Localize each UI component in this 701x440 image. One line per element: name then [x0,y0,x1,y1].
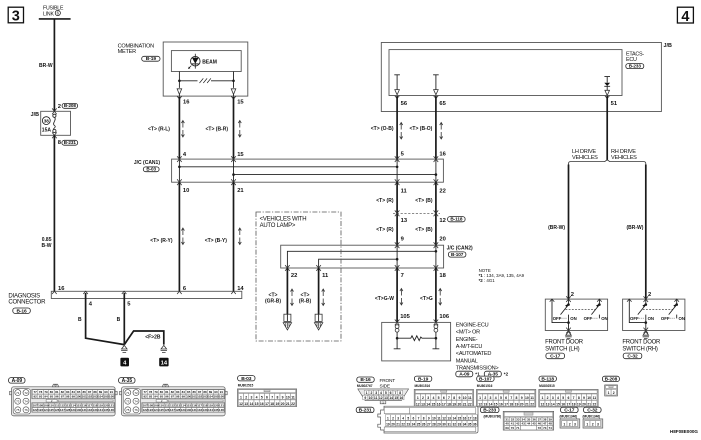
svg-text:96: 96 [165,395,169,399]
CAN1 bus line L [234,174,436,176]
svg-text:75: 75 [16,408,20,412]
svg-text:27: 27 [427,423,431,427]
svg-text:1: 1 [586,422,588,426]
svg-text:VEHICLES: VEHICLES [572,155,598,161]
svg-text:111: 111 [165,403,170,407]
svg-text:8: 8 [453,396,455,400]
svg-text:BEAM: BEAM [202,59,217,65]
ground (F 2B) [161,345,167,349]
svg-text:(R-B): (R-B) [299,299,312,305]
svg-text:15: 15 [556,402,560,406]
svg-text:22: 22 [291,273,297,279]
svg-text:110: 110 [49,403,54,407]
svg-text:FUSIBLE: FUSIBLE [43,5,64,11]
svg-text:12: 12 [239,402,243,406]
svg-text:18: 18 [439,273,446,279]
svg-text:7: 7 [418,416,420,420]
svg-text:ON: ON [601,316,607,321]
wire (R) CAN1 11 to CAN2 9 [396,182,398,245]
connector pinout B-19 [414,376,431,381]
svg-text:85: 85 [77,390,81,394]
junction block J/B (right) [381,43,661,112]
svg-text:ON: ON [679,316,685,321]
svg-text:7: 7 [394,391,396,395]
svg-text:16: 16 [400,396,404,400]
svg-text:117: 117 [87,403,92,407]
svg-text:FRONT DOOR: FRONT DOOR [545,340,584,346]
svg-text:43: 43 [522,422,526,426]
svg-text:6: 6 [567,396,569,400]
fuse symbol [53,114,56,117]
svg-text:88: 88 [93,390,97,394]
svg-text:9: 9 [521,396,523,400]
svg-text:5: 5 [500,396,502,400]
svg-text:C-32: C-32 [627,354,638,360]
CAN1 bus line H [179,166,397,168]
svg-text:AUTO LAMP>: AUTO LAMP> [260,223,296,229]
svg-text:13: 13 [447,416,451,420]
connector pinout A-35 [119,378,135,384]
svg-text:51: 51 [611,101,618,107]
svg-text:C-17: C-17 [564,408,575,414]
svg-text:72: 72 [24,391,28,395]
svg-text:B-118: B-118 [541,376,554,382]
svg-text:86: 86 [192,390,196,394]
svg-text:89: 89 [209,390,213,394]
svg-text:2: 2 [569,422,571,426]
svg-text:MU802515: MU802515 [238,384,254,388]
svg-text:(MU803786): (MU803786) [484,414,502,418]
connector pinout A-09 [9,378,25,384]
svg-text:99: 99 [72,395,76,399]
svg-text:97: 97 [171,395,175,399]
svg-text:11: 11 [468,396,472,400]
svg-text:1: 1 [608,391,610,395]
svg-text:ON: ON [648,316,654,321]
svg-text:16: 16 [439,152,446,158]
svg-text:10: 10 [286,396,290,400]
svg-text:116: 116 [82,403,87,407]
svg-text:35: 35 [468,423,472,427]
svg-text:20: 20 [458,402,462,406]
svg-text:20: 20 [439,237,445,243]
svg-text:115: 115 [76,403,81,407]
svg-text:76: 76 [24,408,28,412]
svg-text:MU802515: MU802515 [539,384,555,388]
svg-text:15: 15 [458,416,462,420]
svg-text:25: 25 [417,423,421,427]
svg-text:111: 111 [55,403,60,407]
svg-text:21: 21 [396,423,400,427]
svg-text:7: 7 [271,396,273,400]
svg-text:4: 4 [256,396,258,400]
svg-text:83: 83 [66,390,70,394]
svg-text:5: 5 [385,391,387,395]
svg-text:7: 7 [401,273,404,279]
svg-text:VEHICLES: VEHICLES [611,155,637,161]
svg-text:97: 97 [61,395,65,399]
svg-text:<T> (B-R): <T> (B-R) [206,127,229,133]
svg-text:12: 12 [541,402,545,406]
option box vehicles with auto lamp [256,212,341,341]
svg-text:71: 71 [126,391,130,395]
svg-text:<T> (R-L): <T> (R-L) [148,127,170,133]
svg-text:1: 1 [387,416,389,420]
svg-text:18: 18 [447,402,451,406]
svg-text:115: 115 [186,403,191,407]
svg-text:MU802767: MU802767 [357,384,373,388]
connector pinout B-118 [539,376,556,381]
svg-text:3: 3 [490,396,492,400]
svg-text:C-32: C-32 [587,408,598,414]
connector label B-233 [626,64,644,69]
svg-text:A-35: A-35 [122,378,133,384]
wire (R-L) meter 16 to J/C CAN1 pin 4 [178,97,180,160]
svg-text:(MU801346): (MU801346) [583,414,601,418]
svg-text:2: 2 [58,104,61,110]
connector label B-231 [62,140,78,145]
svg-text:12: 12 [478,402,482,406]
svg-text:LINK: LINK [43,12,54,18]
diode at pin 51 [604,77,610,83]
svg-text:<T> (B): <T> (B) [415,198,433,204]
connector label B-19 [142,56,160,61]
svg-text:18: 18 [572,402,576,406]
connector pinout B-233 [480,407,499,412]
svg-text:75: 75 [126,408,130,412]
svg-text:19: 19 [386,423,390,427]
svg-text:36: 36 [473,423,477,427]
fuse number 38 [42,117,50,125]
svg-text:B-19: B-19 [418,376,429,382]
svg-text:29: 29 [437,423,441,427]
svg-text:78: 78 [39,390,43,394]
svg-text:B-233: B-233 [629,64,642,69]
svg-text:96: 96 [55,395,59,399]
connector label C-17 [546,353,565,359]
svg-text:9: 9 [364,396,366,400]
svg-text:10: 10 [432,416,436,420]
svg-text:11: 11 [593,396,597,400]
svg-text:12: 12 [379,396,383,400]
svg-text:11: 11 [437,416,441,420]
svg-text:J/C (CAN1): J/C (CAN1) [134,160,160,166]
svg-text:MU801516: MU801516 [415,384,431,388]
svg-text:113: 113 [175,403,180,407]
svg-text:<AUTOMATED: <AUTOMATED [456,351,492,357]
svg-text:MANUAL: MANUAL [456,358,478,364]
svg-text:30: 30 [442,423,446,427]
svg-text:(BR-W): (BR-W) [626,225,643,231]
svg-text:13: 13 [483,402,487,406]
svg-text:85: 85 [187,390,191,394]
svg-text:*1: *1 [475,371,480,376]
svg-text:7: 7 [510,396,512,400]
svg-text:B-16: B-16 [16,308,27,314]
front door switch RH [623,299,685,330]
svg-text:21: 21 [525,402,529,406]
svg-text:23: 23 [407,423,411,427]
svg-text:22: 22 [401,423,405,427]
wire (B-Y) CAN1 21 to diagnosis pin 14 [233,182,235,291]
svg-text:76: 76 [134,408,138,412]
svg-text:<T> (R-Y): <T> (R-Y) [150,238,173,244]
svg-text:FRONT: FRONT [380,378,396,384]
svg-text:113: 113 [65,403,70,407]
svg-text:<T>G: <T>G [420,296,433,302]
svg-text:3: 3 [552,396,554,400]
svg-text:118: 118 [93,403,98,407]
svg-text:84: 84 [72,390,76,394]
svg-text:98: 98 [66,395,70,399]
svg-text:21: 21 [587,402,591,406]
svg-text:2: 2 [571,292,574,298]
svg-text:110: 110 [159,403,164,407]
svg-text:105: 105 [400,314,410,320]
svg-text:J/B: J/B [664,43,672,49]
svg-text:B-233: B-233 [483,408,496,414]
svg-text:J/C (CAN2): J/C (CAN2) [447,245,473,251]
svg-text:9: 9 [583,396,585,400]
wire (B) CAN1 22 to CAN2 20 [435,182,437,245]
svg-text:78: 78 [149,390,153,394]
svg-text:4: 4 [432,396,434,400]
svg-text:91: 91 [110,390,114,394]
svg-text:18: 18 [509,402,513,406]
engine ECU box [382,322,451,361]
svg-text:84: 84 [182,390,186,394]
svg-text:A-09: A-09 [459,372,470,378]
svg-text:<T> (R): <T> (R) [376,227,394,233]
wire (O-B) ETACS 56 to J/C CAN1 pin 5 [396,96,398,159]
svg-text:15: 15 [237,152,244,158]
svg-text:14: 14 [453,416,457,420]
svg-text:22: 22 [593,402,597,406]
ground (LH door switch) [566,332,572,336]
svg-text:8: 8 [276,396,278,400]
svg-text:<F>2B: <F>2B [145,334,161,340]
svg-text:2: 2 [592,422,594,426]
wire B diagnosis 5 to ground [123,293,125,345]
svg-text:ON: ON [570,316,576,321]
front door switch LH [545,299,607,330]
ground ref 14 [159,358,168,367]
connector pinout B-107 [477,376,494,381]
wire B diagnosis 4 to ground [86,293,125,345]
svg-text:ENGINE-ECU: ENGINE-ECU [456,322,489,328]
svg-text:56: 56 [401,101,408,107]
svg-text:13: 13 [546,402,550,406]
svg-text:10: 10 [183,188,189,194]
svg-text:15: 15 [432,402,436,406]
svg-text:65: 65 [439,101,446,107]
svg-text:B-231: B-231 [64,140,77,145]
svg-text:13: 13 [421,402,425,406]
connector pinout B-231 [356,407,374,412]
svg-text:19: 19 [452,402,456,406]
svg-text:ENGINE-: ENGINE- [456,337,478,343]
svg-text:90: 90 [214,390,218,394]
svg-text:A-M/T-ECU: A-M/T-ECU [456,344,483,350]
svg-text:10: 10 [525,396,529,400]
svg-text:B-W: B-W [42,243,52,249]
svg-text:B-208: B-208 [605,376,618,382]
svg-text:80: 80 [160,390,164,394]
svg-text:(BR-W): (BR-W) [548,225,565,231]
svg-text:14: 14 [489,402,493,406]
svg-text:90: 90 [104,390,108,394]
svg-text:13: 13 [244,402,248,406]
svg-text:B-16: B-16 [360,377,371,383]
svg-text:19: 19 [515,402,519,406]
svg-text:16: 16 [437,402,441,406]
svg-text:2: 2 [547,396,549,400]
CAN2 bus line 1 [287,251,436,268]
svg-text:18: 18 [473,416,477,420]
svg-text:8: 8 [423,416,425,420]
svg-text:22: 22 [291,402,295,406]
svg-text:15: 15 [255,402,259,406]
svg-text:4: 4 [557,396,559,400]
wire (B-R) meter 15 to J/C CAN1 pin 15 [233,97,235,160]
svg-text:4: 4 [402,416,404,420]
svg-text:73: 73 [126,400,130,404]
svg-text:*2: *2 [504,371,509,376]
svg-text:136: 136 [109,408,114,412]
svg-text:94: 94 [154,395,158,399]
svg-text:2: 2 [422,396,424,400]
svg-text:77: 77 [143,390,147,394]
svg-text:112: 112 [60,403,65,407]
svg-text:SIDE: SIDE [380,383,390,389]
svg-text:SWITCH (RH): SWITCH (RH) [622,346,657,352]
svg-text:C-17: C-17 [550,354,561,360]
svg-text:92: 92 [33,395,37,399]
svg-text:114: 114 [71,403,76,407]
svg-text:19: 19 [577,402,581,406]
svg-text:5: 5 [407,416,409,420]
svg-text:3: 3 [250,396,252,400]
svg-text:6: 6 [390,391,392,395]
ETACS-ECU [389,50,622,96]
wire (B-O) ETACS 65 to J/C CAN1 pin 16 [435,96,437,159]
wire (R-Y) CAN1 10 to diagnosis pin 6 [178,182,180,291]
svg-text:87: 87 [88,390,92,394]
svg-text:15: 15 [394,396,398,400]
svg-text:OFF: OFF [630,316,639,321]
svg-text:34: 34 [463,423,467,427]
svg-text:71: 71 [16,391,20,395]
page reference box 4 [677,7,693,23]
ECU input coil 106 [434,325,438,329]
svg-text:5: 5 [438,396,440,400]
wire (GR-B) CAN2 22 shield [286,268,288,314]
svg-text:2: 2 [648,292,651,298]
svg-text:<VEHICLES WITH: <VEHICLES WITH [260,217,307,223]
connector label C-32 [623,353,642,359]
svg-text:B: B [117,317,121,323]
wire F 2B to ground 14 [124,331,164,345]
high beam indicator lamp BEAM [194,54,196,69]
wire (BR-W) to LH door switch [568,165,570,300]
svg-text:32: 32 [453,423,457,427]
svg-text:12: 12 [442,416,446,420]
svg-text:33: 33 [458,423,462,427]
svg-text:117: 117 [197,403,202,407]
svg-text:16: 16 [260,402,264,406]
svg-text:88: 88 [203,390,207,394]
svg-text:10: 10 [369,396,373,400]
svg-text:31: 31 [447,423,451,427]
svg-text:9: 9 [282,396,284,400]
CAN1 internal through wires [179,159,436,182]
CAN2 internal through wires [397,245,436,268]
wire from ETACS 51 splits LH/RH [606,96,608,160]
svg-text:70: 70 [511,426,515,430]
svg-text:*2 : 4G1: *2 : 4G1 [479,278,496,283]
svg-text:B: B [78,317,82,323]
svg-text:106: 106 [439,314,449,320]
svg-text:106: 106 [219,395,224,399]
svg-text:72: 72 [134,391,138,395]
CAN2 bus line 2 [319,259,398,268]
svg-text:14: 14 [389,396,393,400]
svg-text:82: 82 [61,390,65,394]
svg-text:98: 98 [176,395,180,399]
meter internal twisted pair wiring [179,72,233,88]
svg-text:14: 14 [250,402,254,406]
svg-text:20: 20 [281,402,285,406]
svg-text:17: 17 [567,402,571,406]
svg-text:15: 15 [494,402,498,406]
svg-text:1: 1 [563,422,565,426]
svg-text:112: 112 [170,403,175,407]
svg-text:71: 71 [516,426,520,430]
svg-text:121: 121 [109,403,114,407]
svg-text:2: 2 [370,391,372,395]
svg-text:69: 69 [505,426,509,430]
svg-text:44: 44 [527,422,531,426]
svg-text:22: 22 [439,189,445,195]
svg-text:9: 9 [458,396,460,400]
svg-text:<T> (O-B): <T> (O-B) [371,126,394,132]
wire BR-W fusible link to J/B fuse [53,19,55,111]
svg-text:5: 5 [562,396,564,400]
svg-text:17: 17 [442,402,446,406]
svg-text:B-03: B-03 [146,167,156,172]
svg-text:16: 16 [183,100,190,106]
svg-text:11: 11 [401,189,408,195]
ground (RH door switch) [643,332,649,336]
svg-text:80: 80 [50,390,54,394]
svg-text:<T> (B-Y): <T> (B-Y) [205,238,228,244]
svg-text:H8F08E000G: H8F08E000G [670,429,699,434]
svg-text:89: 89 [99,390,103,394]
connector pinout B-03 [238,376,255,381]
shield termination right [315,314,322,321]
svg-text:5: 5 [261,396,263,400]
svg-text:19: 19 [276,402,280,406]
svg-text:22: 22 [468,402,472,406]
svg-text:11: 11 [322,273,329,279]
svg-text:OFF: OFF [584,316,593,321]
svg-text:116: 116 [192,403,197,407]
page reference box 3 [8,7,23,23]
wire (BR-W) to RH door switch [645,165,647,300]
svg-text:21: 21 [237,188,244,194]
CAN terminator at pin 56 [394,75,400,90]
svg-text:OFF: OFF [661,316,670,321]
